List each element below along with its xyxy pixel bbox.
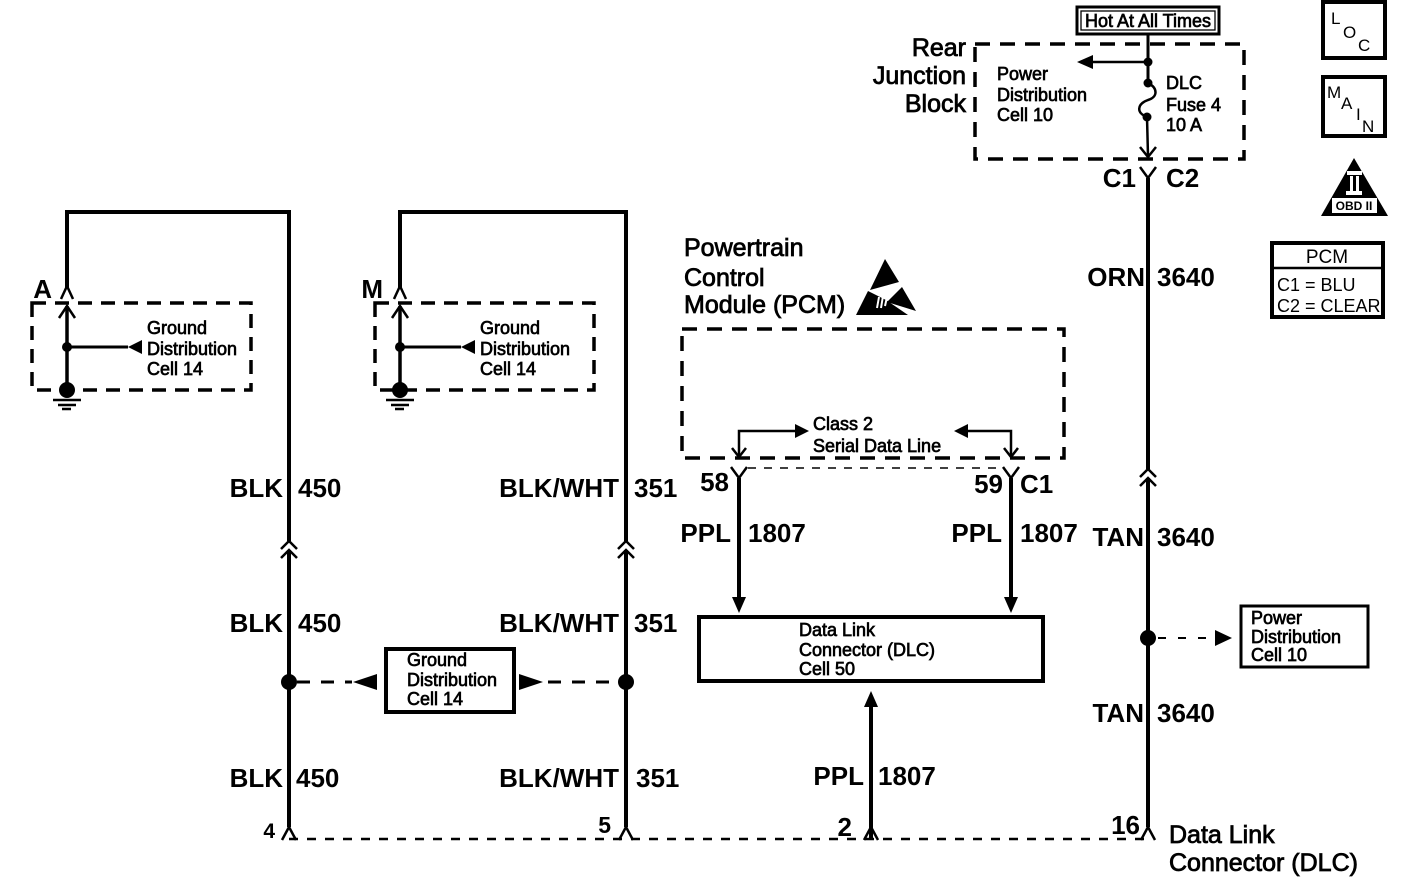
svg-text:58: 58	[700, 467, 729, 497]
svg-text:A: A	[33, 274, 52, 304]
svg-text:351: 351	[636, 763, 679, 793]
svg-text:2: 2	[838, 812, 852, 842]
svg-text:TAN: TAN	[1092, 522, 1144, 552]
svg-text:Distribution: Distribution	[147, 339, 237, 359]
svg-text:Power: Power	[997, 64, 1048, 84]
svg-text:351: 351	[634, 473, 677, 503]
svg-text:C2: C2	[1166, 163, 1199, 193]
svg-text:3640: 3640	[1157, 262, 1215, 292]
svg-text:PPL: PPL	[680, 518, 731, 548]
svg-text:Rear: Rear	[912, 34, 966, 62]
svg-text:59: 59	[974, 469, 1003, 499]
svg-text:16: 16	[1111, 810, 1140, 840]
svg-text:1807: 1807	[878, 761, 936, 791]
svg-text:O: O	[1343, 23, 1356, 42]
svg-text:450: 450	[298, 473, 341, 503]
svg-text:Fuse 4: Fuse 4	[1166, 95, 1221, 115]
svg-text:3640: 3640	[1157, 522, 1215, 552]
svg-text:450: 450	[296, 763, 339, 793]
svg-text:Cell 14: Cell 14	[480, 359, 536, 379]
svg-text:Module (PCM): Module (PCM)	[684, 291, 845, 319]
svg-text:Distribution: Distribution	[407, 670, 497, 690]
svg-text:4: 4	[263, 820, 275, 843]
svg-text:C: C	[1358, 36, 1370, 55]
svg-text:1807: 1807	[1020, 518, 1078, 548]
svg-text:Junction: Junction	[873, 62, 966, 90]
svg-text:C1: C1	[1020, 469, 1053, 499]
svg-text:Distribution: Distribution	[1251, 627, 1341, 647]
svg-text:BLK: BLK	[230, 608, 284, 638]
svg-text:PCM: PCM	[1306, 247, 1348, 268]
svg-text:A: A	[1341, 94, 1353, 113]
svg-text:BLK/WHT: BLK/WHT	[499, 608, 619, 638]
svg-text:Ground: Ground	[147, 318, 207, 338]
svg-text:C2 = CLEAR: C2 = CLEAR	[1277, 296, 1381, 316]
svg-text:Cell 50: Cell 50	[799, 659, 855, 679]
svg-text:C1: C1	[1103, 163, 1136, 193]
svg-text:Block: Block	[905, 90, 967, 118]
svg-text:M: M	[361, 274, 383, 304]
svg-text:Powertrain: Powertrain	[684, 234, 804, 262]
svg-text:Cell 14: Cell 14	[407, 689, 463, 709]
svg-text:Data Link: Data Link	[1169, 821, 1275, 849]
svg-text:Distribution: Distribution	[997, 85, 1087, 105]
svg-text:Distribution: Distribution	[480, 339, 570, 359]
svg-text:M: M	[1327, 83, 1341, 102]
svg-text:Cell 10: Cell 10	[997, 105, 1053, 125]
svg-text:BLK: BLK	[230, 763, 284, 793]
svg-text:Data Link: Data Link	[799, 620, 876, 640]
svg-text:TAN: TAN	[1092, 698, 1144, 728]
svg-text:BLK/WHT: BLK/WHT	[499, 763, 619, 793]
svg-text:Power: Power	[1251, 608, 1302, 628]
svg-text:BLK: BLK	[230, 473, 284, 503]
svg-text:Connector (DLC): Connector (DLC)	[1169, 849, 1358, 877]
svg-text:BLK/WHT: BLK/WHT	[499, 473, 619, 503]
svg-text:Control: Control	[684, 264, 765, 292]
svg-text:450: 450	[298, 608, 341, 638]
svg-text:Connector (DLC): Connector (DLC)	[799, 640, 935, 660]
svg-text:C1 = BLU: C1 = BLU	[1277, 275, 1356, 295]
svg-text:Class 2: Class 2	[813, 414, 873, 434]
svg-text:N: N	[1362, 117, 1374, 136]
svg-text:PPL: PPL	[813, 761, 864, 791]
svg-text:Hot At All Times: Hot At All Times	[1085, 11, 1211, 31]
svg-text:Serial Data Line: Serial Data Line	[813, 436, 941, 456]
svg-text:1807: 1807	[748, 518, 806, 548]
svg-text:L: L	[1331, 9, 1340, 28]
svg-text:10 A: 10 A	[1166, 115, 1202, 135]
svg-text:OBD II: OBD II	[1336, 199, 1373, 213]
svg-text:5: 5	[598, 812, 611, 838]
svg-text:I: I	[1356, 105, 1361, 124]
svg-text:351: 351	[634, 608, 677, 638]
svg-text:Cell 10: Cell 10	[1251, 645, 1307, 665]
svg-text:3640: 3640	[1157, 698, 1215, 728]
svg-text:Ground: Ground	[407, 650, 467, 670]
svg-text:Ground: Ground	[480, 318, 540, 338]
svg-text:DLC: DLC	[1166, 73, 1202, 93]
svg-text:Cell 14: Cell 14	[147, 359, 203, 379]
svg-text:PPL: PPL	[951, 518, 1002, 548]
svg-text:ORN: ORN	[1087, 262, 1145, 292]
